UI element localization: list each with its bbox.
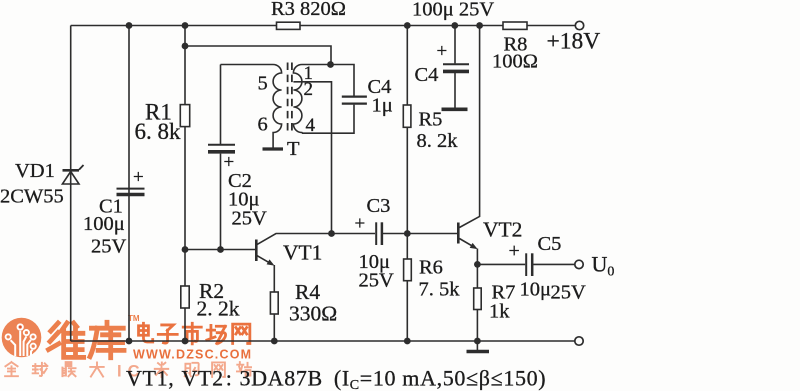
svg-text:5: 5 (258, 73, 268, 95)
svg-text:10μ: 10μ (520, 279, 552, 301)
svg-text:+18V: +18V (547, 29, 601, 55)
svg-text:25V: 25V (551, 282, 587, 304)
svg-text:100Ω: 100Ω (492, 51, 538, 73)
svg-text:R5: R5 (419, 109, 443, 131)
svg-text:25V: 25V (91, 236, 127, 258)
svg-text:VT2: VT2 (483, 218, 522, 242)
svg-text:R4: R4 (295, 280, 320, 304)
svg-text:+: + (509, 240, 520, 262)
svg-text:25V: 25V (232, 208, 268, 230)
svg-text:VD1: VD1 (15, 160, 55, 182)
svg-text:6. 8k: 6. 8k (135, 119, 182, 144)
svg-text:VT1,VT2:3DA87B(IC=10 mA,50≤β≤1: VT1,VT2:3DA87B(IC=10 mA,50≤β≤150) (126, 366, 546, 391)
svg-text:6: 6 (258, 114, 268, 136)
svg-text:+: + (437, 41, 448, 62)
svg-text:25V: 25V (359, 270, 395, 292)
svg-text:+: + (224, 152, 235, 173)
svg-text:1k: 1k (489, 301, 510, 323)
svg-text:2: 2 (304, 79, 314, 100)
svg-text:100μ 25V: 100μ 25V (412, 0, 494, 21)
svg-text:R6: R6 (419, 257, 443, 279)
svg-text:VT1: VT1 (283, 241, 322, 265)
svg-text:WWW.DZSC.COM: WWW.DZSC.COM (133, 348, 252, 362)
svg-text:8. 2k: 8. 2k (417, 130, 459, 152)
svg-text:330Ω: 330Ω (289, 302, 337, 326)
svg-text:4: 4 (306, 115, 316, 136)
svg-text:7. 5k: 7. 5k (419, 279, 461, 301)
svg-text:+: + (133, 167, 144, 188)
svg-text:1μ: 1μ (372, 95, 393, 117)
svg-text:C4: C4 (415, 64, 439, 86)
svg-text:+: + (355, 214, 366, 235)
svg-text:100μ: 100μ (83, 213, 125, 235)
svg-text:C5: C5 (538, 233, 562, 255)
svg-text:T: T (287, 138, 300, 160)
svg-text:C3: C3 (367, 195, 391, 217)
svg-text:2CW55: 2CW55 (0, 186, 64, 208)
svg-text:R3 820Ω: R3 820Ω (271, 0, 346, 20)
svg-text:2. 2k: 2. 2k (197, 297, 240, 321)
